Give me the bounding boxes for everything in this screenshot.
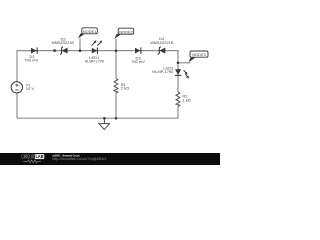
diode D3: [135, 47, 141, 53]
junction dot node3: [177, 62, 180, 65]
label V1 10 V: [26, 82, 35, 91]
svg-text:HLMP-1790: HLMP-1790: [152, 69, 174, 74]
label LED2 HLMP-1790: [152, 66, 174, 75]
node NODE2 flag: [114, 28, 133, 39]
footer CircuitLab logo LAB box: [35, 154, 45, 159]
svg-text:NODE3: NODE3: [192, 52, 206, 57]
zener diode D4: [158, 47, 165, 55]
svg-text:2 kΩ: 2 kΩ: [121, 86, 129, 91]
wire left rail lower: [16, 93, 18, 118]
node NODE1 flag: [78, 28, 97, 39]
svg-text:700 mV: 700 mV: [24, 58, 38, 63]
LED2 emission arrows: [184, 70, 190, 78]
node NODE3 flag: [188, 51, 208, 62]
wire node3 stub: [178, 62, 191, 64]
svg-text:CIRCUIT: CIRCUIT: [21, 155, 35, 161]
junction dot node1: [79, 49, 82, 52]
svg-text:MMSZ5221B: MMSZ5221B: [52, 40, 75, 45]
svg-text:HLMP-1790: HLMP-1790: [85, 58, 105, 63]
LED LED1: [92, 47, 98, 53]
svg-text:LAB: LAB: [36, 154, 44, 159]
junction dot node2: [115, 49, 118, 52]
junction dot ground: [103, 117, 106, 120]
label R1 2 kOhm: [121, 82, 129, 91]
wire bottom rail: [17, 117, 178, 119]
svg-text:NODE1: NODE1: [83, 29, 97, 34]
wire right rail lower: [177, 106, 179, 119]
zener diode D2: [60, 47, 67, 55]
label D3 700 mV: [131, 55, 145, 64]
footer CircuitLab logo flourish: [23, 160, 41, 163]
label R2 1 kOhm: [182, 94, 190, 103]
wire left rail upper: [16, 50, 18, 82]
wire node2 stem lower: [115, 93, 117, 118]
svg-text:10 V: 10 V: [26, 86, 35, 91]
wire ground stub: [103, 118, 105, 123]
resistor R1: [114, 79, 118, 93]
wire right rail upper: [177, 50, 179, 92]
LED1 emission arrows: [92, 40, 103, 45]
label D2 MMSZ5221B: [52, 37, 75, 46]
svg-text:http://circuitlab.com/c/7eq6j4: http://circuitlab.com/c/7eq6j48hk3: [52, 157, 106, 161]
label LED1 HLMP-1790: [85, 55, 105, 64]
wire node1 stub: [79, 39, 81, 51]
svg-text:MMSZ5221B: MMSZ5221B: [150, 40, 174, 45]
wire node2 stem upper: [115, 39, 117, 79]
voltage source V1: [11, 82, 22, 93]
diode D1: [31, 47, 38, 53]
wire top rail: [17, 50, 178, 52]
label D1 700 mV: [24, 54, 38, 63]
svg-text:NODE2: NODE2: [119, 29, 133, 34]
resistor R2: [176, 92, 180, 106]
LED LED2: [175, 69, 182, 76]
ground: [99, 124, 110, 130]
svg-text:1 kΩ: 1 kΩ: [182, 97, 190, 102]
junction dot between D1 and D2: [53, 49, 56, 51]
junction dot R1 bottom: [115, 117, 118, 120]
footer bar: [0, 153, 220, 165]
svg-text:700 mV: 700 mV: [131, 59, 145, 64]
label D4 MMSZ5221B: [150, 36, 174, 45]
